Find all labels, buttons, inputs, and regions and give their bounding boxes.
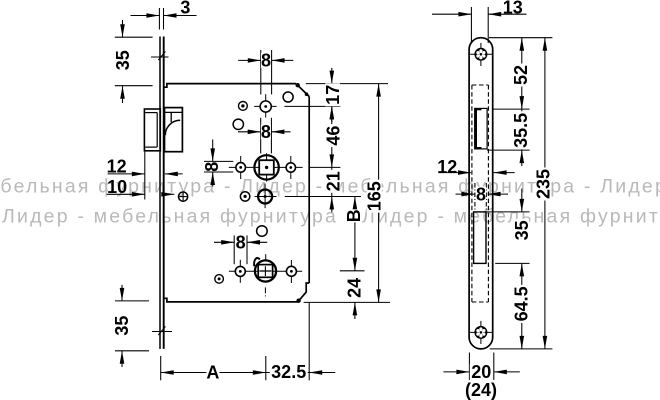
dashed square hole (8mm follower) <box>474 183 476 212</box>
svg-text:21: 21 <box>323 171 343 191</box>
faceplate break mark bottom <box>158 327 165 336</box>
WC nut stop cam hook <box>254 258 260 266</box>
dimension 32.5 <box>265 356 267 380</box>
dimension 12 (latch projection) <box>144 149 146 199</box>
dimension 35 bottom-left <box>115 300 149 302</box>
dimension 21 <box>331 167 333 196</box>
dimension 24 <box>354 302 356 319</box>
dimension 8 rotated left of row2 <box>204 160 233 162</box>
row1 centerline <box>254 105 276 107</box>
top screw centerline h <box>470 53 492 55</box>
dimension 165 <box>378 84 380 303</box>
svg-text:52: 52 <box>511 65 531 85</box>
top-right bevel corner <box>296 84 309 97</box>
dimension 20 / (24) <box>468 353 470 380</box>
right-side extension lines <box>306 83 388 85</box>
svg-text:12: 12 <box>107 157 127 177</box>
dimension 35 top-left <box>115 36 153 38</box>
svg-text:A: A <box>206 362 219 382</box>
spindle square 8mm <box>259 160 274 174</box>
dimension A (backset) <box>160 356 162 380</box>
spindle vertical centerline <box>266 153 268 181</box>
bottom-right step and bevel <box>299 283 310 301</box>
dimension 8 (follower square, right view) <box>456 193 475 195</box>
dimension 8 spindle square width <box>260 118 262 154</box>
dashed lock case behind plate <box>472 84 489 86</box>
nut centerline above <box>265 254 267 261</box>
WC nut circle <box>255 260 276 281</box>
dimension 64.5 <box>521 263 523 349</box>
svg-text:20: 20 <box>471 362 491 382</box>
dimension 13 <box>470 7 472 43</box>
svg-text:8: 8 <box>202 162 222 172</box>
dimension 3 (faceplate thickness) <box>158 8 160 30</box>
svg-text:8: 8 <box>236 233 246 253</box>
latch cutout in plate <box>475 108 487 148</box>
hole row5 left <box>235 266 245 276</box>
svg-text:8: 8 <box>476 184 486 204</box>
row2 centerline <box>229 166 303 168</box>
svg-text:8: 8 <box>261 122 271 142</box>
svg-text:(24): (24) <box>465 380 497 400</box>
dimension 8 above top hole <box>260 50 262 94</box>
plain hole upper right <box>283 92 293 102</box>
dimension 235 <box>544 38 546 349</box>
bottom screw centerline v <box>480 321 482 344</box>
dimension 35.5 <box>521 109 523 150</box>
lock case right edge <box>308 97 310 284</box>
nut centerline below <box>264 287 266 298</box>
hole row2 left <box>236 163 246 173</box>
svg-text:B: B <box>344 209 364 222</box>
case screw <box>179 192 188 201</box>
hole ring row3 <box>240 192 249 201</box>
top hole 8mm <box>260 101 271 112</box>
spindle follower circle <box>254 155 278 179</box>
lock case top edge <box>164 84 296 88</box>
top screw centerline v <box>480 43 482 66</box>
dimension 12 (case width, right view) <box>438 172 471 174</box>
follower hole thick row3 <box>258 190 272 204</box>
dimension 10 <box>107 193 145 195</box>
top fixing screw (torx) <box>474 48 487 61</box>
WC nut square <box>258 265 272 278</box>
lock case bottom edge <box>164 298 299 302</box>
nut inner crosshair v <box>264 266 266 276</box>
svg-text:46: 46 <box>324 126 344 146</box>
hole ring row5 lower-left <box>215 275 224 284</box>
svg-text:10: 10 <box>107 177 127 197</box>
faceplate strip (edge view, left) <box>159 37 161 349</box>
plain hole row4 <box>257 226 268 237</box>
dimension B <box>354 197 356 271</box>
nut inner crosshair h <box>259 270 271 272</box>
svg-text:13: 13 <box>503 0 523 18</box>
hole row5 right <box>286 266 296 276</box>
svg-text:32.5: 32.5 <box>271 362 306 382</box>
bottom screw centerline h <box>470 331 493 333</box>
svg-text:165: 165 <box>365 181 385 211</box>
svg-text:35.5: 35.5 <box>511 113 531 148</box>
svg-text:12: 12 <box>437 157 457 177</box>
latch bolt body (inside case) <box>165 108 183 152</box>
latch bevel curve <box>165 120 180 135</box>
lower cutout in plate <box>474 212 486 264</box>
dimension 8 row5 hole <box>233 235 235 264</box>
corner dot bottom <box>296 299 300 303</box>
row5 centerline <box>229 270 302 272</box>
svg-text:35: 35 <box>112 316 132 336</box>
bottom fixing screw (torx) <box>474 326 487 339</box>
faceplate front outline (stadium) <box>469 38 493 349</box>
dimension 46 <box>331 106 333 167</box>
svg-text:24: 24 <box>345 278 365 298</box>
corner dot top-1 <box>296 83 300 87</box>
hole ring small row1 <box>239 102 248 111</box>
svg-text:17: 17 <box>323 85 343 105</box>
dimension 35 (right view) <box>521 189 523 212</box>
dimension 17 <box>331 68 333 84</box>
top hole vertical centerline <box>265 94 267 117</box>
hole row2 right <box>286 163 295 172</box>
latch bolt head (outside) <box>144 109 160 151</box>
dimension 52 <box>521 38 523 109</box>
row3 centerline <box>255 196 277 198</box>
faceplate break mark top <box>158 52 165 61</box>
right view extension lines <box>489 37 553 39</box>
svg-text:3: 3 <box>180 0 190 18</box>
svg-text:235: 235 <box>534 169 554 199</box>
svg-text:64.5: 64.5 <box>512 286 532 321</box>
svg-text:35: 35 <box>113 50 133 70</box>
svg-text:35: 35 <box>512 220 532 240</box>
svg-text:8: 8 <box>261 51 271 71</box>
plain hole mid left <box>233 119 243 129</box>
corner dot top-2 <box>305 92 309 96</box>
